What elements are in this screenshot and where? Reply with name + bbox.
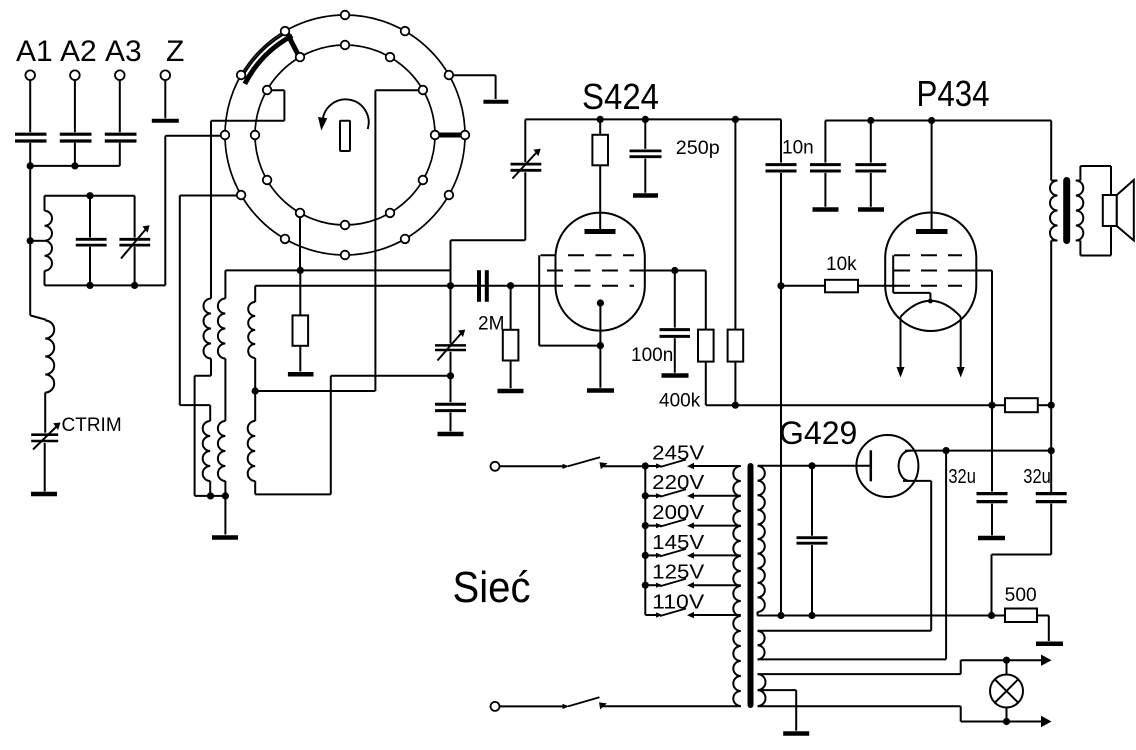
svg-text:A3: A3 xyxy=(105,35,142,68)
svg-text:32u: 32u xyxy=(1023,466,1051,488)
svg-text:Z: Z xyxy=(166,35,184,68)
svg-text:10k: 10k xyxy=(826,254,857,275)
svg-text:2M: 2M xyxy=(478,314,504,335)
svg-text:A1: A1 xyxy=(16,35,53,68)
svg-text:500: 500 xyxy=(1005,585,1037,606)
svg-text:CTRIM: CTRIM xyxy=(62,415,122,436)
svg-text:100n: 100n xyxy=(631,345,673,366)
svg-text:S424: S424 xyxy=(582,76,659,117)
svg-text:P434: P434 xyxy=(917,73,990,114)
svg-text:10n: 10n xyxy=(782,138,814,159)
svg-text:Sieć: Sieć xyxy=(453,563,531,612)
svg-text:G429: G429 xyxy=(779,415,857,451)
svg-text:250p: 250p xyxy=(676,138,720,159)
svg-text:400k: 400k xyxy=(659,391,701,412)
svg-text:A2: A2 xyxy=(60,35,97,68)
svg-text:32u: 32u xyxy=(948,466,976,488)
